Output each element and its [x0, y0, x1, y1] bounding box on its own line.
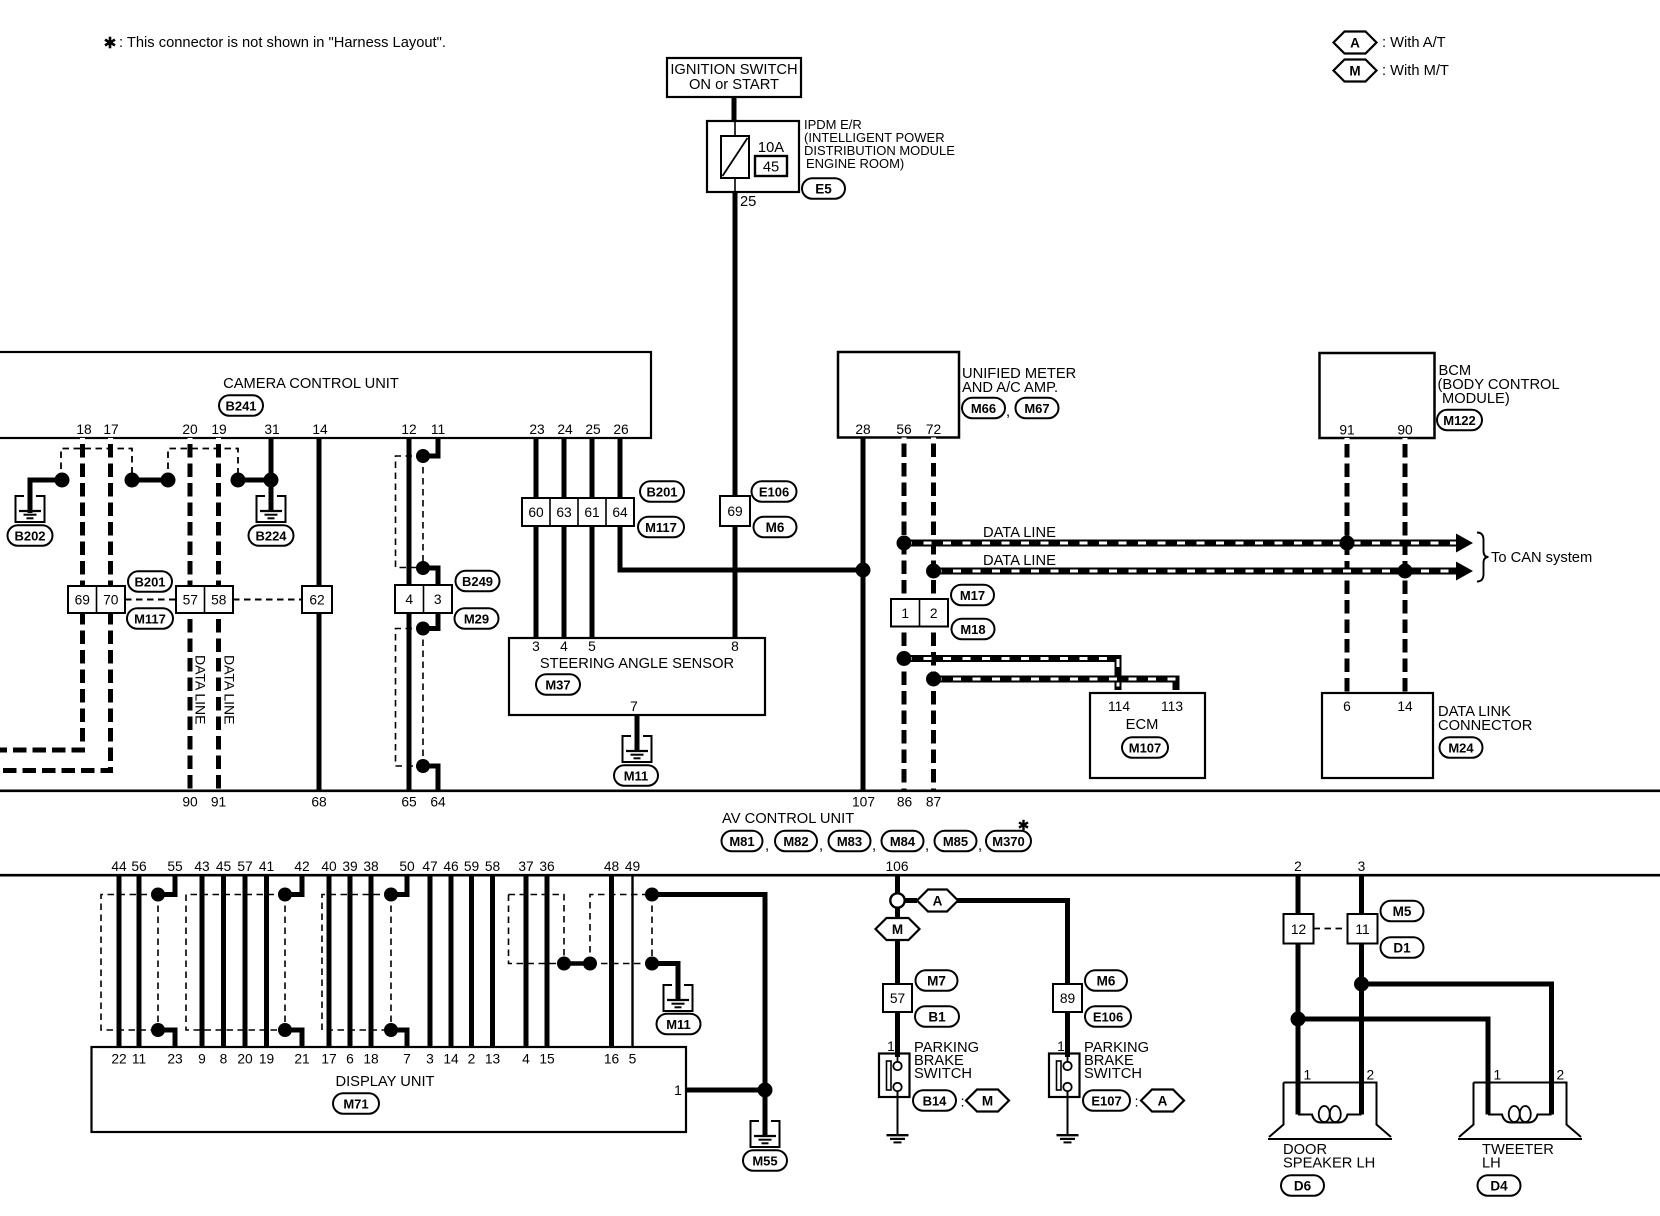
display unit box M71	[92, 1047, 687, 1132]
wire AV 38 to display 18	[369, 876, 374, 1047]
svg-text:STEERING ANGLE SENSOR: STEERING ANGLE SENSOR	[540, 656, 734, 672]
svg-text:91: 91	[1339, 423, 1354, 438]
brace to CAN system	[1477, 533, 1489, 582]
connector box 57 58	[176, 586, 233, 613]
svg-text:4: 4	[405, 592, 413, 607]
wire into connector 3	[423, 568, 438, 586]
CAN link to ECM 113	[934, 679, 1177, 690]
connector M6	[754, 517, 797, 538]
svg-text:1: 1	[674, 1083, 682, 1098]
svg-text:25: 25	[585, 422, 601, 437]
svg-text:5: 5	[629, 1052, 637, 1067]
legend hexagon M = With M/T	[1334, 60, 1377, 82]
svg-text:23: 23	[529, 422, 545, 437]
wire AV 2 through connector 12 to door speaker 1	[1296, 876, 1301, 914]
shield drain dashed wire upper	[422, 456, 424, 568]
switch contact top	[1063, 1062, 1071, 1070]
svg-text:106: 106	[885, 859, 908, 874]
svg-text:3: 3	[426, 1052, 434, 1067]
svg-text:70: 70	[103, 593, 119, 608]
wire junction to tweeter 2	[1362, 984, 1552, 1083]
AV top pin labels 90 91 68 65 64 107 86 87	[182, 795, 941, 810]
svg-text:59: 59	[464, 859, 480, 874]
junction data line 1 at meter 56	[897, 536, 912, 551]
svg-text:B241: B241	[225, 398, 256, 413]
svg-text:39: 39	[342, 859, 358, 874]
wire AV 44 to display 22	[117, 876, 122, 1047]
junction	[278, 888, 292, 902]
connector M18	[952, 619, 995, 640]
connector E106	[1085, 1006, 1131, 1027]
svg-text:65: 65	[401, 795, 417, 810]
svg-text:11: 11	[132, 1052, 146, 1067]
wire AV 37 to display 4	[524, 876, 529, 1047]
ground M11 symbol	[623, 736, 652, 762]
svg-text::: :	[961, 1095, 965, 1111]
shield dashed box around 40 39 38	[322, 895, 391, 1031]
connector M83	[829, 831, 871, 852]
svg-text:SPEAKER LH: SPEAKER LH	[1283, 1156, 1375, 1172]
svg-text:42: 42	[294, 859, 309, 874]
svg-text:17: 17	[103, 422, 118, 437]
svg-text:1: 1	[901, 606, 909, 621]
wire AV 59 to display 2	[469, 876, 474, 1047]
connector B249	[456, 571, 500, 592]
svg-text:20: 20	[182, 422, 198, 437]
earth ground	[887, 1135, 909, 1142]
shield drain dashed wire lower	[422, 629, 424, 767]
wire hexagon A to parking brake switch E107 branch	[957, 901, 1068, 985]
svg-text:3: 3	[434, 592, 442, 607]
connector box 1 2 M17 M18	[891, 599, 948, 627]
svg-text:57: 57	[890, 991, 905, 1006]
shield drain dashed	[390, 895, 392, 1031]
wire meter pin 56 shielded to AV pin 86	[902, 438, 907, 600]
junction speaker plus	[1354, 977, 1369, 992]
steering angle sensor box M37	[509, 638, 765, 715]
connector E106	[752, 481, 797, 502]
wire connector 57 to parking brake switch B14	[895, 1012, 900, 1057]
junction	[416, 622, 430, 636]
svg-text:18: 18	[76, 422, 92, 437]
svg-text:M122: M122	[1443, 413, 1476, 428]
svg-text:M117: M117	[645, 520, 677, 535]
shield tie wire	[564, 961, 590, 966]
connector D4	[1478, 1175, 1521, 1196]
svg-text:46: 46	[443, 859, 459, 874]
dashed connector link 70 to 57	[125, 599, 176, 601]
unified meter label text	[962, 366, 1076, 396]
shield dashed box around wire 12 upper	[396, 456, 424, 568]
AV control unit top border	[0, 789, 1660, 792]
svg-text:M5: M5	[1393, 904, 1412, 919]
svg-text:1: 1	[1057, 1039, 1065, 1054]
camera pin labels 18 17 20 19 31 14 12 11 23 24 25 26	[76, 422, 629, 437]
hexagon A with A/T	[917, 890, 958, 912]
svg-text:18: 18	[363, 1052, 379, 1067]
switch wire stub	[1067, 1054, 1069, 1062]
svg-text:89: 89	[1060, 991, 1076, 1006]
svg-text:61: 61	[584, 505, 599, 520]
tweeter LH symbol	[1458, 1083, 1582, 1140]
connector box 57	[883, 984, 912, 1012]
svg-text:A: A	[1158, 1093, 1168, 1108]
shield drain dashed	[651, 895, 653, 964]
svg-text:SWITCH: SWITCH	[914, 1066, 972, 1082]
svg-text:19: 19	[211, 422, 227, 437]
svg-text:114: 114	[1108, 699, 1130, 714]
data link pin labels 6 14	[1343, 699, 1413, 714]
wire ground B202 drain to shield	[30, 480, 62, 513]
svg-text:11: 11	[431, 422, 445, 437]
svg-text:,: ,	[1006, 404, 1010, 420]
svg-text:6: 6	[346, 1052, 354, 1067]
svg-text:1: 1	[887, 1039, 895, 1054]
parking brake switch B14 label text	[914, 1040, 979, 1082]
hexagon A	[1141, 1090, 1184, 1112]
svg-text::: :	[1135, 1095, 1139, 1111]
junction	[55, 473, 70, 488]
svg-text:21: 21	[294, 1052, 309, 1067]
wire to AV pin 64	[423, 766, 438, 790]
svg-text:68: 68	[311, 795, 327, 810]
connector M6	[1085, 970, 1127, 991]
hexagon M	[966, 1090, 1009, 1112]
svg-text:72: 72	[926, 422, 941, 437]
svg-text:A: A	[1350, 35, 1360, 50]
svg-text:AV CONTROL UNIT: AV CONTROL UNIT	[722, 811, 854, 827]
connector M71	[333, 1093, 379, 1114]
wire AV 43 to display 9	[200, 876, 205, 1047]
svg-text:91: 91	[211, 795, 226, 810]
svg-text:62: 62	[309, 593, 324, 608]
switch contact top	[893, 1062, 901, 1070]
svg-text:CONNECTOR: CONNECTOR	[1438, 718, 1532, 734]
svg-text:2: 2	[1367, 1068, 1375, 1083]
CAN data line 2	[934, 568, 1461, 575]
svg-text:M117: M117	[134, 611, 166, 626]
connector M370	[986, 831, 1031, 852]
connector M85	[935, 831, 977, 852]
svg-text:69: 69	[727, 504, 743, 519]
svg-text:M71: M71	[343, 1096, 368, 1111]
svg-text:40: 40	[321, 859, 337, 874]
junction	[416, 759, 430, 773]
svg-text:M: M	[1349, 63, 1360, 78]
wire AV 48 to display 16	[609, 876, 614, 1047]
svg-text:16: 16	[604, 1052, 620, 1067]
switch contact bottom	[1063, 1083, 1071, 1091]
dashed connector link 12 to 11	[1314, 928, 1348, 930]
svg-text:87: 87	[926, 795, 941, 810]
wire meter pin 28 to AV pin 107	[861, 438, 866, 791]
junction	[645, 957, 659, 971]
wire steering pin 7 to ground M11	[635, 715, 640, 752]
svg-text:B1: B1	[928, 1009, 946, 1024]
junction data line 1 at BCM 91	[1340, 536, 1355, 551]
junction	[125, 473, 140, 488]
svg-text:14: 14	[312, 422, 328, 437]
wire camera pin 24 to steering 4	[562, 438, 567, 638]
svg-text:M6: M6	[1097, 973, 1116, 988]
wire shield to ground M11	[652, 964, 678, 1002]
svg-text:113: 113	[1161, 699, 1183, 714]
svg-text:58: 58	[211, 593, 227, 608]
switch wire stub	[897, 1054, 899, 1062]
wire camera pin 25 to steering 5	[590, 438, 595, 638]
shield dashed lines around 48 49	[590, 895, 652, 964]
wire AV 3 through connector 11 to door speaker 2	[1359, 876, 1364, 914]
ground M11 symbol lower	[664, 985, 693, 1011]
svg-text:23: 23	[167, 1052, 183, 1067]
connector B14	[913, 1090, 956, 1111]
wire connector 3 down jog	[423, 613, 438, 629]
svg-text:M82: M82	[783, 834, 808, 849]
meter pin labels 28 56 72	[855, 422, 941, 437]
wire option circle to hexagon M	[895, 907, 900, 918]
IPDM E/R box E5	[707, 121, 799, 192]
svg-text:43: 43	[194, 859, 210, 874]
wire switch to earth ground	[1067, 1091, 1069, 1135]
arrowhead data line 2	[1456, 562, 1473, 581]
svg-text:56: 56	[131, 859, 147, 874]
svg-text:5: 5	[588, 639, 596, 654]
data link connector box M24	[1322, 693, 1433, 778]
svg-text:2: 2	[1557, 1068, 1565, 1083]
svg-text:57: 57	[183, 593, 198, 608]
shield dashed box around wires 18 17	[61, 449, 132, 481]
junction data line 2 at BCM 90	[1398, 564, 1413, 579]
connector D1	[1381, 937, 1424, 958]
svg-text:17: 17	[321, 1052, 336, 1067]
data link connector label text	[1438, 704, 1532, 734]
svg-text:: With A/T: : With A/T	[1382, 35, 1446, 51]
svg-text:60: 60	[528, 505, 544, 520]
svg-text:AND A/C AMP.: AND A/C AMP.	[962, 380, 1058, 396]
wire AV 41 to display 19	[264, 876, 269, 1047]
CAN data line 1	[904, 540, 1460, 547]
svg-text:1: 1	[1304, 1068, 1312, 1083]
svg-text:90: 90	[182, 795, 198, 810]
junction	[416, 561, 430, 575]
wire AV 39 to display 6	[348, 876, 353, 1047]
BCM pin labels 91 90	[1339, 423, 1413, 438]
connector B201	[640, 481, 684, 502]
dashed connector link 58 to 62	[233, 599, 302, 601]
svg-text:B224: B224	[255, 528, 287, 543]
svg-text:M370: M370	[992, 834, 1025, 849]
svg-text:E107: E107	[1091, 1093, 1121, 1108]
svg-text:D4: D4	[1490, 1178, 1508, 1193]
junction on wire 31	[264, 473, 279, 488]
svg-text:28: 28	[855, 422, 871, 437]
svg-text:41: 41	[259, 859, 274, 874]
svg-text:7: 7	[630, 699, 638, 714]
junction	[645, 888, 659, 902]
connector M82	[775, 831, 817, 852]
svg-text:47: 47	[422, 859, 437, 874]
svg-text:56: 56	[896, 422, 912, 437]
svg-text:M7: M7	[927, 973, 946, 988]
junction	[384, 1023, 398, 1037]
display pin labels	[111, 1052, 636, 1067]
svg-text:M55: M55	[752, 1153, 777, 1168]
fuse number 45 box	[755, 156, 787, 176]
option junction circle	[890, 893, 904, 907]
ignition switch box	[667, 58, 801, 97]
wire hexagon M down to connector 57	[895, 939, 900, 984]
wire AV 58 to display 13	[490, 876, 495, 1047]
svg-text:90: 90	[1397, 423, 1413, 438]
wire AV 46 to display 14	[449, 876, 454, 1047]
svg-text:19: 19	[259, 1052, 275, 1067]
svg-text:55: 55	[167, 859, 183, 874]
connector D6	[1281, 1175, 1324, 1196]
svg-text:E5: E5	[815, 181, 832, 196]
shield dashed box around wire 12 lower	[396, 629, 424, 767]
connector box 11	[1348, 914, 1378, 944]
svg-text:To CAN system: To CAN system	[1491, 550, 1592, 566]
svg-text:CAMERA CONTROL UNIT: CAMERA CONTROL UNIT	[223, 376, 399, 392]
svg-text:M18: M18	[960, 622, 985, 637]
ground M55 symbol	[751, 1121, 780, 1147]
wire AV 42 jog to shield	[285, 876, 302, 895]
wire AV 106 down to option circle	[895, 876, 900, 894]
svg-text:13: 13	[485, 1052, 501, 1067]
wire IPDM fuse 25 down to connector 69 and steering angle sensor pin 8	[733, 192, 738, 638]
svg-text:M11: M11	[624, 768, 649, 783]
svg-text:50: 50	[399, 859, 415, 874]
shield drain dashed	[157, 895, 159, 1031]
connector E5	[802, 178, 845, 199]
svg-text:38: 38	[363, 859, 379, 874]
svg-text:DISPLAY UNIT: DISPLAY UNIT	[335, 1074, 434, 1090]
junction	[416, 449, 430, 463]
parking brake switch E107 box	[1049, 1054, 1080, 1098]
wire switch to earth ground	[897, 1091, 899, 1135]
wire AV 56 to display 11	[137, 876, 142, 1047]
svg-text:15: 15	[539, 1052, 555, 1067]
connector B202	[8, 525, 53, 546]
svg-text:20: 20	[237, 1052, 253, 1067]
svg-text:M83: M83	[837, 834, 862, 849]
connector M117	[638, 517, 684, 538]
wire camera pin 11 jog to shield drain	[423, 438, 438, 456]
svg-text:1: 1	[1494, 1068, 1502, 1083]
wire camera pin 20 shielded down to connector 57 to AV pin 90	[188, 438, 193, 586]
svg-text:8: 8	[220, 1052, 228, 1067]
svg-text:SWITCH: SWITCH	[1084, 1066, 1142, 1082]
connector box 4 3 B249 M29	[395, 585, 452, 613]
svg-text:M107: M107	[1129, 740, 1162, 755]
svg-text:M81: M81	[729, 834, 754, 849]
svg-text:2: 2	[930, 606, 938, 621]
svg-text:7: 7	[403, 1052, 411, 1067]
wire camera pin 23 to steering 3	[534, 438, 539, 638]
svg-text:14: 14	[443, 1052, 459, 1067]
connector M5	[1381, 901, 1424, 922]
arrowhead data line 1	[1456, 534, 1473, 553]
connector M29	[455, 608, 499, 629]
svg-text:M17: M17	[960, 588, 985, 603]
svg-text:4: 4	[560, 639, 568, 654]
shield tie wire	[132, 478, 168, 483]
wire camera pin 12 down to AV pin 65	[407, 438, 412, 790]
connector box 69 70	[68, 586, 125, 613]
svg-text:9: 9	[198, 1052, 206, 1067]
ECM box M107	[1090, 693, 1205, 778]
connector box 89	[1053, 984, 1082, 1012]
connector B201	[128, 571, 172, 592]
svg-text:25: 25	[740, 194, 756, 210]
svg-text:ECM: ECM	[1126, 717, 1159, 733]
svg-text:B14: B14	[923, 1093, 948, 1108]
connector M17	[951, 585, 994, 606]
connector M67	[1016, 398, 1059, 419]
wire AV 55 jog to shield	[158, 876, 175, 895]
svg-text:B202: B202	[14, 528, 45, 543]
svg-text:4: 4	[522, 1052, 530, 1067]
svg-text:36: 36	[539, 859, 555, 874]
svg-text:6: 6	[1343, 699, 1351, 714]
svg-text:E106: E106	[1093, 1009, 1123, 1024]
junction data line 2 at meter 72	[926, 564, 941, 579]
connector B241	[219, 395, 263, 416]
svg-text:31: 31	[264, 422, 279, 437]
wire AV 47 to display 3	[428, 876, 433, 1047]
ground B202 symbol	[16, 496, 45, 522]
svg-text:14: 14	[1397, 699, 1413, 714]
svg-text:M: M	[892, 922, 903, 937]
switch contact bottom	[893, 1083, 901, 1091]
svg-text:D1: D1	[1393, 940, 1411, 955]
wire junction to tweeter 1	[1298, 1019, 1488, 1083]
wire shield bus to display ground	[652, 895, 765, 1138]
svg-text:64: 64	[430, 795, 446, 810]
connector M55	[743, 1150, 787, 1171]
connector M107	[1122, 737, 1168, 758]
svg-text:24: 24	[557, 422, 573, 437]
shield tie wire to pin 31	[238, 478, 271, 483]
tweeter label text	[1482, 1142, 1554, 1172]
svg-text:LH: LH	[1482, 1156, 1501, 1172]
svg-text:3: 3	[1358, 859, 1366, 874]
svg-text:IGNITION SWITCH: IGNITION SWITCH	[670, 62, 797, 78]
junction speaker minus	[1291, 1012, 1306, 1027]
svg-text:M11: M11	[666, 1017, 691, 1032]
svg-text:49: 49	[625, 859, 641, 874]
wire ignition switch to IPDM fuse	[732, 97, 737, 122]
wire camera pin 31 to ground B224	[269, 438, 274, 512]
connector M24	[1440, 737, 1483, 758]
junction	[231, 473, 246, 488]
ground B224 symbol	[257, 496, 286, 522]
parking brake switch E107 label text	[1084, 1040, 1149, 1082]
wire shield to display 21	[285, 1030, 302, 1047]
connector M122	[1437, 410, 1482, 431]
svg-text:63: 63	[556, 505, 572, 520]
svg-text:3: 3	[532, 639, 540, 654]
earth ground	[1057, 1135, 1079, 1142]
svg-text:45: 45	[216, 859, 232, 874]
door speaker LH symbol	[1268, 1083, 1392, 1140]
svg-text:M24: M24	[1448, 740, 1474, 755]
svg-text:22: 22	[111, 1052, 126, 1067]
svg-text:,: ,	[765, 838, 769, 854]
wire camera pin 17 shielded down to connector 70 then exits left	[108, 438, 113, 586]
connector M7	[916, 970, 958, 991]
connector B224	[249, 525, 294, 546]
